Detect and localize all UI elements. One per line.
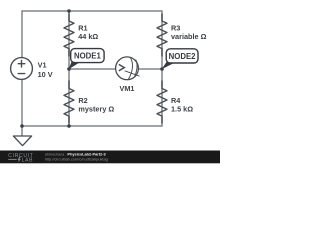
- junction dot node A (NODE1): [67, 67, 71, 71]
- CircuitLab logo wordmark: [8, 153, 33, 163]
- node B flag NODE2: [162, 49, 198, 69]
- svg-text:http://circuitlab.com/c/nudtsa: http://circuitlab.com/c/nudtsahpuktag: [45, 157, 108, 162]
- svg-text:10 V: 10 V: [38, 70, 53, 79]
- wire top rail: [22, 10, 162, 12]
- svg-text:variable Ω: variable Ω: [171, 32, 207, 41]
- voltmeter VM1: [116, 57, 140, 80]
- resistor R1: [64, 14, 74, 56]
- CircuitLab logo dash: [8, 158, 16, 161]
- svg-text:1.5 kΩ: 1.5 kΩ: [171, 104, 193, 113]
- svg-text:VM1: VM1: [119, 84, 134, 93]
- voltmeter VM1 arrow glyph: [119, 64, 125, 70]
- ground: [13, 136, 31, 146]
- svg-text:V1: V1: [38, 60, 47, 69]
- wire left rail lower: [21, 79, 23, 126]
- svg-text:LAB: LAB: [22, 158, 34, 164]
- wire bottom rail: [22, 125, 162, 127]
- wire R3 column: [161, 10, 163, 69]
- wire node row right (VM1 to NODE2): [138, 68, 162, 70]
- svg-text:NODE2: NODE2: [169, 52, 197, 61]
- svg-text:mystery Ω: mystery Ω: [78, 104, 114, 113]
- resistor R3: [157, 14, 167, 56]
- junction dot bottom of R2: [67, 124, 71, 128]
- node A flag NODE1: [69, 49, 105, 70]
- svg-text:NODE1: NODE1: [74, 52, 102, 61]
- wire node row left (NODE1 to VM1): [69, 68, 116, 70]
- wire R1 column: [68, 11, 70, 69]
- CircuitLab logo bolt: [18, 157, 21, 163]
- resistor R4: [157, 81, 167, 123]
- junction dot bottom left: [20, 124, 24, 128]
- svg-text:44 kΩ: 44 kΩ: [78, 32, 98, 41]
- resistor R2: [64, 81, 74, 123]
- footer bar: [0, 151, 220, 164]
- junction dot top of R1: [67, 9, 71, 13]
- wire left rail upper: [21, 10, 23, 58]
- wire R2 column: [68, 69, 70, 126]
- wire ground lead: [21, 126, 23, 136]
- junction dot node B (NODE2): [160, 67, 164, 71]
- wire R4 column: [161, 69, 163, 127]
- voltage source V1: [11, 58, 33, 80]
